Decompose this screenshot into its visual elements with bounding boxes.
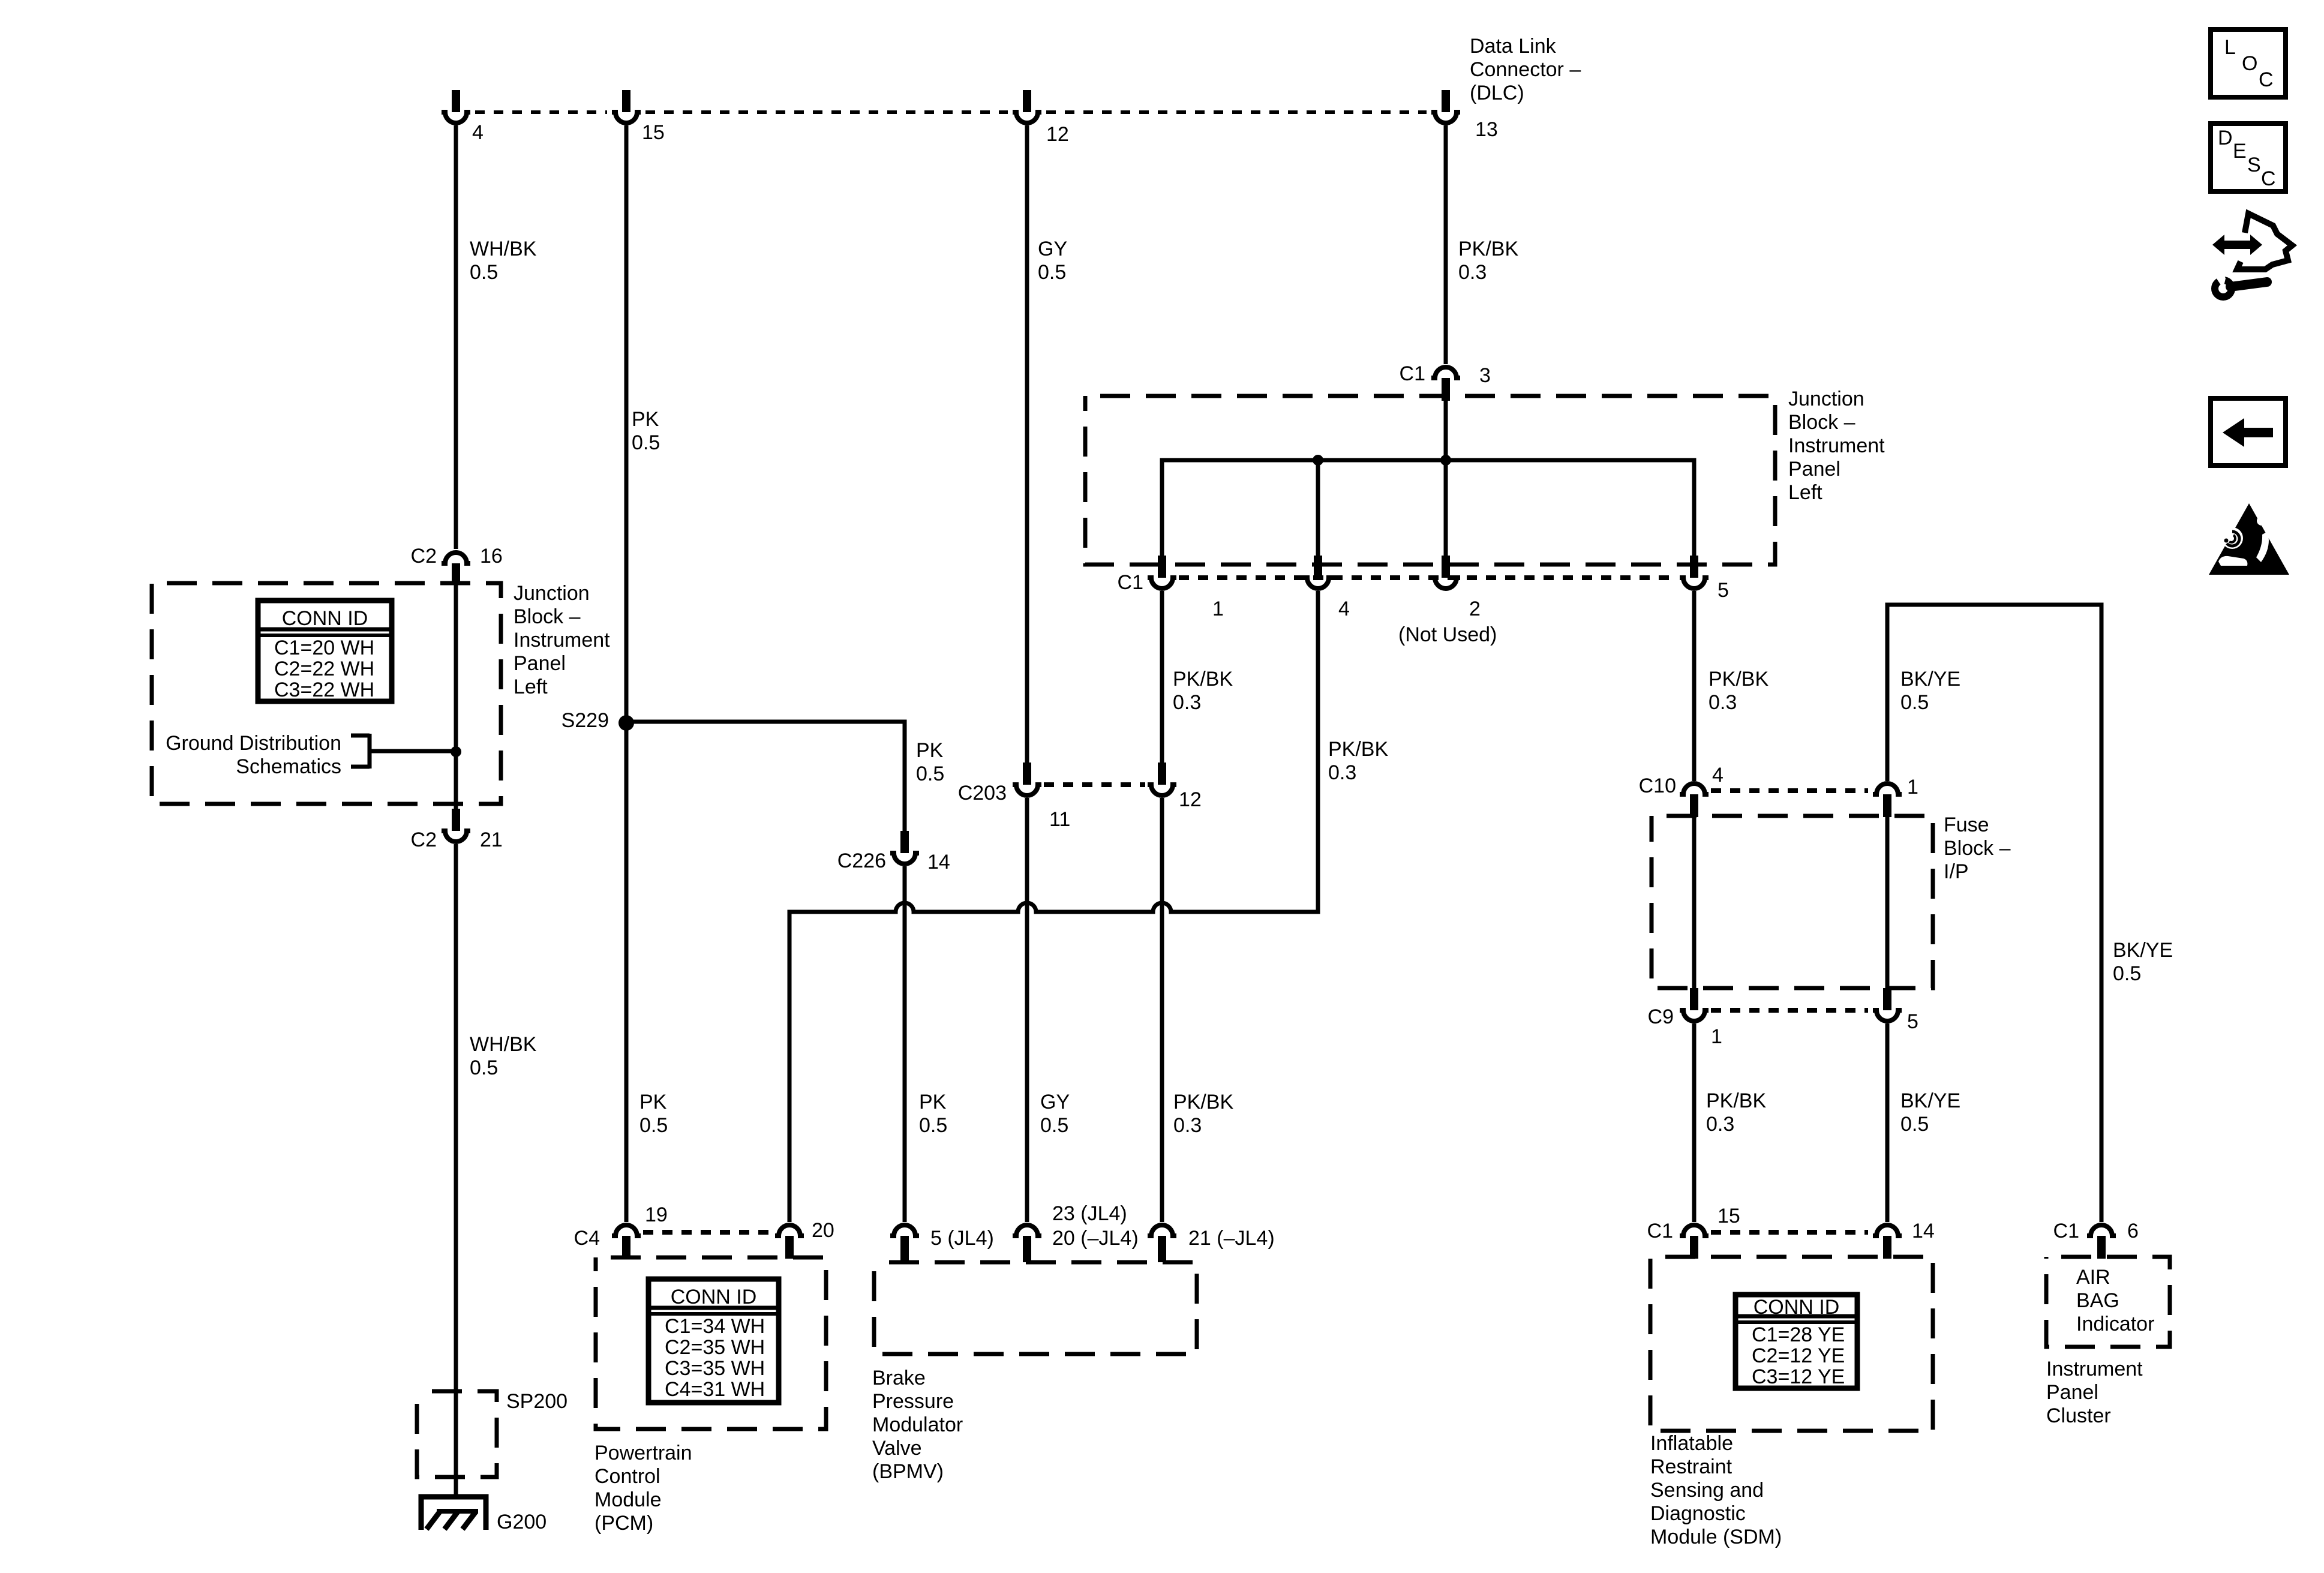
CONN ID table (SDM) xyxy=(1736,1295,1857,1388)
svg-text:15: 15 xyxy=(642,121,665,144)
svg-text:13: 13 xyxy=(1475,118,1498,141)
wire PK/BK from C1-4 to PCM 20 (with hops) xyxy=(789,591,1318,1222)
wire PK/BK from C1-1 to C203-12 xyxy=(1160,591,1164,764)
connector pin 15 (top bus) xyxy=(612,90,641,123)
svg-text:C3=12 YE: C3=12 YE xyxy=(1752,1365,1845,1388)
svg-text:12: 12 xyxy=(1046,123,1069,146)
svg-text:C1=28 YE: C1=28 YE xyxy=(1752,1323,1845,1346)
connector C1 pin 5 xyxy=(1680,556,1709,589)
svg-text:C2=22 WH: C2=22 WH xyxy=(274,658,374,680)
fuse block I/P (dashed box) xyxy=(1652,816,1933,988)
wire dashed bus segment 15-12 xyxy=(645,110,1008,114)
connector C1 pin 4 xyxy=(1304,556,1332,589)
svg-text:C: C xyxy=(2261,167,2276,190)
junction block instrument panel left (dashed box) xyxy=(1085,396,1775,565)
svg-text:1: 1 xyxy=(1907,776,1918,798)
connector C1 pin 15 into SDM xyxy=(1680,1225,1709,1259)
svg-text:23 (JL4): 23 (JL4) xyxy=(1052,1202,1127,1225)
svg-text:5 (JL4): 5 (JL4) xyxy=(930,1227,994,1250)
wire PK from C226 to BPMV pin 5 xyxy=(903,866,907,1222)
junction block instrument panel left (dashed box) xyxy=(152,583,501,804)
connector C2 pin 16 into junction block xyxy=(442,553,470,584)
svg-text:11: 11 xyxy=(1049,808,1070,831)
svg-text:21: 21 xyxy=(480,828,503,851)
wire BK/YE from C10-1 up and to IP cluster xyxy=(1887,605,2101,1222)
svg-text:1: 1 xyxy=(1212,598,1224,620)
svg-text:21 (–JL4): 21 (–JL4) xyxy=(1188,1227,1275,1250)
connector C203 row dashed line xyxy=(1044,782,1145,787)
svg-text:PK0.5: PK0.5 xyxy=(916,739,944,785)
svg-text:C226: C226 xyxy=(837,849,886,872)
svg-text:C4: C4 xyxy=(574,1227,600,1250)
svg-text:C1: C1 xyxy=(2053,1220,2079,1242)
connector C1 pin 3 into junction block xyxy=(1431,367,1460,401)
svg-text:15: 15 xyxy=(1718,1205,1740,1227)
CONN ID table (PCM) xyxy=(648,1279,779,1403)
connector C1 pin 6 into IP cluster xyxy=(2087,1225,2116,1259)
connector C1 pin 1 xyxy=(1148,556,1176,589)
wire inside junction block from C1-3 xyxy=(1444,401,1448,460)
svg-text:C1=20 WH: C1=20 WH xyxy=(274,637,374,659)
wire PK/BK from C1-5 to C10-4 xyxy=(1692,591,1697,781)
inflatable restraint SDM (dashed box) xyxy=(1650,1257,1933,1431)
wire BK/YE from C9-5 to SDM 14 xyxy=(1885,1023,1890,1222)
connector C203 pin 11 xyxy=(1013,763,1041,795)
svg-text:C10: C10 xyxy=(1639,775,1676,797)
svg-text:C2: C2 xyxy=(411,545,437,568)
svg-text:S: S xyxy=(2247,154,2261,176)
svg-text:2: 2 xyxy=(1469,598,1481,620)
junction internal node xyxy=(1440,455,1451,466)
svg-text:4: 4 xyxy=(1712,764,1724,786)
air bag indicator (dashed box) xyxy=(2046,1257,2170,1347)
connector C9 pin 1 xyxy=(1680,988,1709,1021)
wire PK/BK from pin 13 to junction block C1-3 xyxy=(1444,125,1448,364)
wire through fuse block (left) xyxy=(1692,794,1697,990)
svg-text:19: 19 xyxy=(645,1203,668,1226)
wire GY from pin 12 to C203-11 xyxy=(1025,125,1029,764)
svg-text:20: 20 xyxy=(812,1219,834,1242)
svg-text:16: 16 xyxy=(480,545,503,568)
connector C9 row dashed line xyxy=(1711,1008,1868,1013)
svg-text:O: O xyxy=(2242,52,2257,75)
ground G200 xyxy=(421,1497,486,1530)
wire GY from C203-11 to BPMV xyxy=(1025,798,1029,1222)
svg-text:C2=35 WH: C2=35 WH xyxy=(665,1336,765,1359)
junction internal node xyxy=(1313,455,1323,466)
connector BPMV pin 5 (JL4) xyxy=(890,1225,919,1262)
powertrain control module PCM (dashed box) xyxy=(596,1257,826,1429)
wire inside left junction block xyxy=(454,563,458,811)
svg-text:CONN ID: CONN ID xyxy=(671,1286,757,1308)
icon DESC box xyxy=(2211,124,2286,191)
connector BPMV pin 23/20 xyxy=(1013,1225,1041,1262)
connector C10 pin 1 into fuse block xyxy=(1873,784,1902,817)
svg-text:D: D xyxy=(2218,127,2233,149)
splice S229 xyxy=(618,715,634,731)
svg-text:C: C xyxy=(2259,68,2274,91)
connector C4 pin 20 into PCM xyxy=(775,1225,804,1259)
connector pin 12 (top bus) xyxy=(1013,90,1041,123)
svg-text:C4=31 WH: C4=31 WH xyxy=(665,1378,765,1401)
svg-text:4: 4 xyxy=(472,121,484,144)
connector C9 pin 5 xyxy=(1873,988,1902,1021)
connector pin 13 (DLC) xyxy=(1431,90,1460,123)
icon diagnostic arrow and wrench xyxy=(2212,214,2292,297)
svg-text:S229: S229 xyxy=(562,709,609,732)
svg-text:C2=12 YE: C2=12 YE xyxy=(1752,1344,1845,1367)
svg-text:6: 6 xyxy=(2127,1220,2139,1242)
icon air bag warning triangle xyxy=(2209,503,2289,575)
wire internal stub to pin 4 xyxy=(1316,460,1320,558)
connector C10 row dashed line xyxy=(1711,788,1868,793)
svg-text:SP200: SP200 xyxy=(506,1390,568,1413)
connector C4 row dashed line xyxy=(643,1230,773,1235)
wire WH/BK from C2-21 to G200 xyxy=(454,844,458,1494)
icon back arrow box xyxy=(2211,398,2286,466)
svg-text:GY0.5: GY0.5 xyxy=(1040,1091,1070,1137)
svg-text:C2: C2 xyxy=(411,828,437,851)
wire dashed bus segment 12-13 xyxy=(1046,110,1427,114)
svg-text:C1: C1 xyxy=(1647,1220,1673,1242)
svg-text:C1=34 WH: C1=34 WH xyxy=(665,1315,765,1338)
svg-text:4: 4 xyxy=(1338,598,1350,620)
connector C10 pin 4 into fuse block xyxy=(1680,784,1709,817)
svg-text:C1: C1 xyxy=(1118,571,1143,594)
svg-text:CONN ID: CONN ID xyxy=(282,607,368,630)
svg-text:PK0.5: PK0.5 xyxy=(632,408,660,454)
connector C2 pin 21 below junction block xyxy=(442,809,470,842)
connector C4 pin 19 into PCM xyxy=(612,1225,641,1259)
connector C1 pin 14 into SDM xyxy=(1873,1225,1902,1259)
junction to ground distribution xyxy=(451,746,461,757)
svg-text:14: 14 xyxy=(927,851,950,873)
svg-text:12: 12 xyxy=(1179,788,1202,811)
svg-text:5: 5 xyxy=(1718,579,1729,602)
connector C203 pin 12 xyxy=(1148,763,1176,795)
wire PK from pin 15 to PCM C4-19 xyxy=(624,125,629,1222)
brake pressure modulator valve BPMV (dashed box) xyxy=(874,1262,1197,1354)
connector C1 row dashed line (SDM) xyxy=(1711,1230,1868,1235)
wire PK/BK from C9-1 to SDM 15 xyxy=(1692,1023,1697,1222)
svg-text:CONN ID: CONN ID xyxy=(1753,1296,1840,1319)
svg-text:C1: C1 xyxy=(1400,362,1425,385)
CONN ID table (left junction block) xyxy=(258,601,392,701)
svg-text:G200: G200 xyxy=(497,1511,547,1533)
svg-text:C3=22 WH: C3=22 WH xyxy=(274,679,374,701)
wire internal stub to pin 2 xyxy=(1444,460,1448,558)
connector C1 pin 2 (not used) xyxy=(1431,556,1460,589)
svg-text:E: E xyxy=(2233,140,2247,163)
icon LOC box xyxy=(2211,29,2286,97)
svg-text:14: 14 xyxy=(1912,1220,1935,1242)
wire dashed bus segment 4-15 xyxy=(475,110,607,114)
svg-text:5: 5 xyxy=(1907,1010,1918,1033)
connector C226 pin 14 xyxy=(890,831,919,864)
connector pin 4 (top bus) xyxy=(442,90,470,123)
wire through fuse block (right) xyxy=(1885,794,1890,990)
svg-text:3: 3 xyxy=(1479,364,1491,387)
svg-text:C203: C203 xyxy=(958,782,1007,804)
connector C1 row dashed line xyxy=(1179,575,1677,580)
bracket to ground distribution xyxy=(351,734,456,769)
connector BPMV pin 21 xyxy=(1148,1225,1176,1262)
svg-text:C9: C9 xyxy=(1648,1005,1674,1028)
wire WH/BK from pin 4 to C2-16 xyxy=(454,125,458,549)
wire PK/BK from C203-12 to BPMV 21 xyxy=(1160,798,1164,1222)
svg-text:PK0.5: PK0.5 xyxy=(919,1091,947,1137)
svg-text:(Not Used): (Not Used) xyxy=(1398,623,1497,646)
wire internal bus of junction block xyxy=(1162,460,1694,558)
wire PK branch S229 to C226 xyxy=(626,722,905,834)
svg-text:C3=35 WH: C3=35 WH xyxy=(665,1357,765,1380)
svg-text:1: 1 xyxy=(1711,1025,1722,1048)
svg-text:GY0.5: GY0.5 xyxy=(1038,238,1067,284)
svg-text:20 (–JL4): 20 (–JL4) xyxy=(1052,1227,1139,1250)
svg-text:PK0.5: PK0.5 xyxy=(639,1091,668,1137)
splice SP200 (dashed box) xyxy=(417,1391,497,1477)
svg-text:L: L xyxy=(2224,36,2236,59)
